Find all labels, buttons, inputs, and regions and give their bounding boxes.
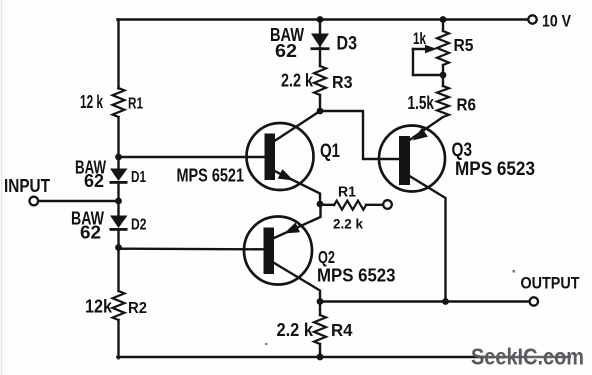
svg-text:MPS 6523: MPS 6523 xyxy=(455,159,535,180)
transistor Q2 emitter arrowhead xyxy=(284,223,300,234)
terminal INPUT xyxy=(30,197,39,206)
svg-text:INPUT: INPUT xyxy=(4,176,50,196)
transistor Q2 base bar xyxy=(264,228,275,275)
wire INPUT lead xyxy=(38,200,119,202)
svg-text:D3: D3 xyxy=(337,33,358,55)
svg-text:D1: D1 xyxy=(131,169,146,186)
terminal R1h xyxy=(383,200,392,209)
wire node F to R4 xyxy=(319,302,321,316)
wire Q2 collector to node F xyxy=(273,262,321,302)
junction top rail / R5 xyxy=(440,16,447,23)
wire Q1 emitter to node E xyxy=(275,171,321,204)
wire top rail xyxy=(117,18,528,20)
wire R1 to node A xyxy=(117,117,119,169)
resistor R3 (2.2 k) xyxy=(314,66,326,95)
diode D1 xyxy=(110,169,128,182)
svg-text:R1: R1 xyxy=(128,96,143,113)
wire R5 wiper arm xyxy=(413,48,428,50)
svg-text:62: 62 xyxy=(80,223,101,243)
wire R1h to terminal xyxy=(366,204,383,206)
svg-text:R4: R4 xyxy=(331,320,353,340)
junction node A (R1/D1/Q1 base) xyxy=(115,154,122,161)
wire Q2 emitter to node E xyxy=(274,204,321,238)
resistor R6 (1.5k) xyxy=(437,86,449,117)
wire D3 to R3 xyxy=(319,48,321,66)
svg-text:1k: 1k xyxy=(413,30,427,48)
transistor Q3 emitter arrowhead xyxy=(413,128,428,141)
junction node D (R5/R6/wiper) xyxy=(440,72,447,79)
resistor R4 (2.2k) xyxy=(314,315,326,344)
junction Q3 collector / output line xyxy=(442,298,449,305)
wire Q3 collector down to output line xyxy=(410,176,446,302)
wire output line xyxy=(320,300,530,302)
diode D3 xyxy=(311,34,329,48)
wire R5 to node D xyxy=(442,65,444,75)
terminal 10V xyxy=(528,15,536,23)
R5 wiper arrowhead xyxy=(425,45,437,53)
wire R5 wiper to node D xyxy=(413,74,443,76)
wire left column top (rail to R1) xyxy=(117,20,119,89)
terminal OUTPUT xyxy=(530,297,538,305)
svg-text:MPS 6521: MPS 6521 xyxy=(177,166,245,186)
wire Q2 base lead xyxy=(119,247,264,250)
svg-text:MPS 6523: MPS 6523 xyxy=(317,266,396,286)
junction node E (Q1 emitter/Q2 emitter/R1h) xyxy=(317,201,324,208)
transistor Q1 emitter arrowhead xyxy=(278,169,294,180)
svg-text:D2: D2 xyxy=(131,217,147,234)
svg-text:R3: R3 xyxy=(332,72,353,92)
wire Q1 collector xyxy=(275,111,321,141)
junction top rail / D3 xyxy=(317,16,324,23)
wire R5 wiper down xyxy=(412,49,414,75)
resistor R1 horizontal (2.2 k) xyxy=(334,201,366,210)
wire rail to D3 xyxy=(319,20,321,34)
svg-text:Q1: Q1 xyxy=(320,141,340,162)
junction node C (R3/Q1 collector) xyxy=(317,108,324,115)
svg-text:12k: 12k xyxy=(85,297,113,317)
wire node D to R6 xyxy=(442,75,444,86)
svg-text:10 V: 10 V xyxy=(542,12,571,30)
wire R3 to node C xyxy=(319,95,321,111)
scan edge artifact xyxy=(1,0,3,375)
transistor Q3 circle xyxy=(379,126,445,192)
junction node F (Q2 collector/R4/output) xyxy=(317,298,324,305)
junction node B (D2/R2/Q2 base) xyxy=(115,244,122,251)
junction R4 / bottom rail xyxy=(317,354,324,361)
resistor R2 (12k) xyxy=(113,291,125,320)
resistor R1 (12 k) xyxy=(113,88,125,117)
svg-text:Q2: Q2 xyxy=(318,247,335,267)
wire R4 to bottom rail xyxy=(319,344,321,358)
svg-text:12 k: 12 k xyxy=(80,92,104,112)
resistor R5 (1k pot) xyxy=(437,31,449,65)
svg-text:R6: R6 xyxy=(457,95,477,115)
svg-text:2.2 k: 2.2 k xyxy=(281,71,314,91)
wire D1 cathode to input node xyxy=(117,184,119,216)
svg-text:62: 62 xyxy=(84,171,104,191)
svg-text:R1: R1 xyxy=(338,185,356,201)
junction input node xyxy=(115,198,122,205)
svg-text:SeekIC.com: SeekIC.com xyxy=(471,343,584,369)
transistor Q2 circle xyxy=(244,217,312,285)
wire D2 cathode to node B xyxy=(117,230,119,292)
wire Q1 base lead xyxy=(119,156,265,158)
svg-text:OUTPUT: OUTPUT xyxy=(521,274,581,293)
transistor Q3 base bar xyxy=(399,136,410,185)
scan speck near bottom xyxy=(265,343,268,345)
svg-text:62: 62 xyxy=(275,41,297,61)
wire node E to R1h xyxy=(320,204,334,206)
wire node C to Q3 base xyxy=(320,111,399,159)
svg-text:1.5k: 1.5k xyxy=(408,93,435,113)
transistor Q1 base bar xyxy=(265,134,276,181)
svg-text:2.2 k: 2.2 k xyxy=(277,320,314,340)
svg-text:Q3: Q3 xyxy=(452,140,473,161)
svg-text:R5: R5 xyxy=(454,35,474,55)
svg-text:R2: R2 xyxy=(128,300,147,317)
wire bottom rail xyxy=(117,356,483,358)
wire R2 to bottom rail xyxy=(117,320,119,358)
wire R6 to Q3 emitter xyxy=(410,117,444,140)
diode D2 xyxy=(110,216,128,229)
wire rail to R5 xyxy=(442,20,444,32)
svg-text:2.2 k: 2.2 k xyxy=(333,215,363,231)
scan speck near OUTPUT xyxy=(513,270,516,273)
watermark strike line xyxy=(483,356,571,359)
transistor Q1 circle xyxy=(247,123,314,190)
